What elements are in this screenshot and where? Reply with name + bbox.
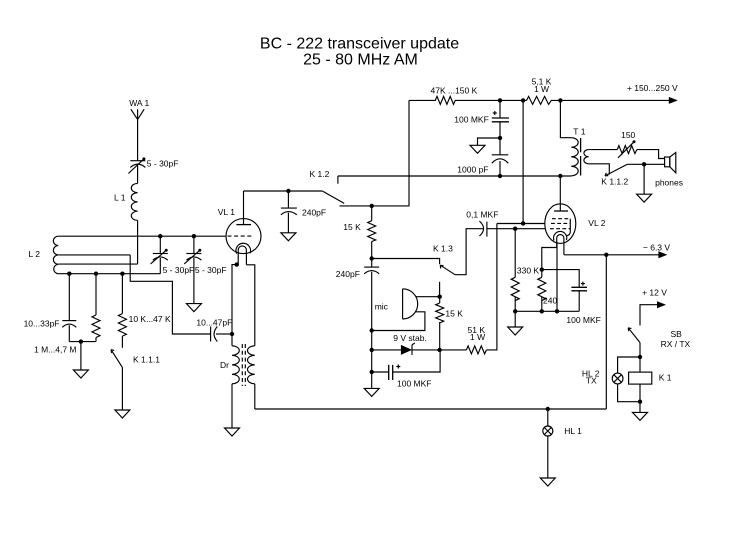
wire screen feed vertical [522, 100, 524, 223]
svg-text:330 K: 330 K [517, 266, 540, 276]
svg-text:K 1.1.2: K 1.1.2 [601, 177, 628, 187]
svg-text:100 MKF: 100 MKF [397, 379, 432, 389]
svg-text:240pF: 240pF [302, 207, 326, 217]
switch K1.1.1 arm [111, 350, 122, 368]
svg-text:K 1: K 1 [659, 373, 672, 383]
wire phones ground [643, 164, 645, 194]
ground (Dr) [225, 428, 240, 436]
choke Dr right winding [248, 346, 255, 384]
wire diode to node [412, 349, 466, 351]
node 240 top [540, 267, 544, 271]
node 240pF anode cap [286, 189, 290, 193]
node gnd link [79, 339, 83, 343]
wire top rail to 5.1K [500, 99, 527, 101]
node tap3 L2 [120, 272, 124, 276]
node diode left [370, 348, 374, 352]
wire Dr right to heater rail [254, 384, 256, 409]
resistor 1M...4.7M [92, 315, 100, 338]
svg-text:47K ...150 K: 47K ...150 K [431, 85, 478, 95]
transformer T1 primary [571, 138, 578, 176]
node mic / 15K [438, 295, 442, 299]
wire switch to ground [121, 367, 123, 410]
capacitor 0.1 MKF [479, 221, 487, 237]
svg-text:15 K: 15 K [343, 222, 361, 232]
svg-text:− 6.3 V: − 6.3 V [643, 242, 671, 252]
resistor 51K 1W [466, 346, 486, 354]
svg-text:1 W: 1 W [534, 84, 549, 94]
inductor L1 [131, 183, 137, 220]
svg-text:K 1.3: K 1.3 [433, 244, 453, 254]
wire tap1 down [68, 274, 70, 321]
svg-text:25 - 80 MHz AM: 25 - 80 MHz AM [303, 52, 418, 69]
ground (10...33pF / 1M) [73, 370, 88, 378]
node var cap 1 top [158, 234, 162, 238]
switch K1.1.2 arm [605, 164, 627, 176]
wire VL1 filament left step [232, 265, 238, 334]
wire diode line left [372, 349, 401, 351]
ground (C3) [186, 304, 201, 312]
node rail 330K [513, 309, 517, 313]
capacitor 100 MKF (cathode) [571, 282, 587, 291]
svg-text:T 1: T 1 [573, 127, 585, 137]
arrowhead +150V [669, 97, 678, 104]
inductor L2 [53, 236, 226, 274]
wire cathode rail [515, 310, 579, 312]
resistor 15K (mic) [436, 297, 444, 350]
wire T1 top lead [560, 100, 571, 137]
wire 100MKF (bias) right [393, 350, 440, 372]
wire 1000pF to line [499, 161, 501, 176]
node filament left [235, 262, 239, 266]
switch K1.2 arm [322, 191, 344, 203]
ground (K1.1.1) [115, 410, 130, 418]
node 100MKF top [498, 98, 502, 102]
wire 240pF bottom column [371, 272, 373, 389]
node HL1 [546, 407, 550, 411]
node var cap 2 top [192, 234, 196, 238]
switch SB arm [628, 328, 640, 343]
wire 100MKF top lead [499, 100, 501, 118]
transformer T1 secondary [584, 150, 589, 164]
ground (HL1) [540, 478, 555, 486]
microphone mic [403, 289, 418, 319]
wire 100MKF to node [499, 122, 501, 155]
svg-text:240pF: 240pF [336, 269, 360, 279]
wire 100MKF (bias) left [372, 371, 389, 373]
variable capacitor C1 5-30pF (antenna) [128, 157, 145, 173]
potentiometer 150 [617, 140, 637, 158]
wire anode cap top [287, 191, 289, 208]
arrowhead -6.3V [658, 251, 667, 258]
node diode right / 15K bottom [437, 348, 441, 352]
wire anode cap to ground [287, 213, 289, 233]
wire VL2 filament right / -6.3V line [564, 254, 659, 256]
wire HL2 branch top [618, 357, 640, 373]
node ground branch [498, 136, 502, 140]
wire antenna to trimmer [137, 120, 139, 161]
wire 0.1MKF to VL2 grid [487, 228, 545, 230]
wire K1.1.2 to phones [627, 163, 664, 165]
svg-text:VL 1: VL 1 [218, 207, 235, 217]
wire SB to relay [639, 343, 641, 373]
node screen feed top [521, 98, 525, 102]
wire rail to ground [514, 311, 516, 327]
speaker phones [665, 153, 676, 173]
svg-text:+ 150...250 V: + 150...250 V [627, 83, 678, 93]
svg-text:BC - 222 transceiver update: BC - 222 transceiver update [260, 36, 459, 53]
svg-text:5 - 30pF: 5 - 30pF [195, 265, 227, 275]
wire K1.2 line to T1 primary bottom [338, 175, 571, 177]
wire HL2 branch bottom [618, 384, 640, 402]
node screen line [521, 221, 525, 225]
lamp HL2 [612, 373, 623, 384]
ground (240pF anode) [281, 233, 296, 241]
svg-text:15 K: 15 K [445, 309, 463, 319]
wire 240 node to 100MKF [542, 270, 579, 288]
antenna WA1 [131, 109, 144, 119]
wire Dr left to ground [231, 384, 233, 428]
node rail 240 [540, 309, 544, 313]
capacitor 240pF (anode) [281, 208, 297, 215]
wire VL2 filament left step [542, 248, 557, 270]
choke Dr core [242, 344, 245, 386]
wire heater rail [255, 408, 607, 410]
resistor 47K...150K [409, 96, 500, 104]
wire resistor bottom [95, 338, 97, 342]
wire cap to gnd link [68, 325, 70, 341]
wire trimmer to L1 [137, 165, 139, 183]
svg-text:240: 240 [543, 296, 557, 306]
wire mic upper lead [416, 296, 440, 298]
wire K1.3 feed line [372, 259, 440, 265]
wire tap3 down [121, 274, 123, 314]
wire tap2 down [95, 274, 97, 315]
variable capacitor C3 5-30pF [184, 249, 201, 264]
node HL2 top [638, 355, 642, 359]
wire mic lower lead [372, 312, 425, 331]
wire 100MKF bottom [578, 291, 580, 312]
node 330K top [513, 227, 517, 231]
svg-text:K 1.1.1: K 1.1.1 [133, 355, 160, 365]
resistor 330K [511, 229, 519, 312]
svg-text:1 M...4,7 M: 1 M...4,7 M [34, 344, 77, 354]
svg-text:150: 150 [621, 130, 635, 140]
wire ground branch [478, 138, 501, 145]
svg-text:5 - 30pF: 5 - 30pF [147, 159, 179, 169]
wire K1.3 lower contact stub [439, 282, 441, 297]
switch K1.2 upper contact stub [337, 176, 339, 184]
capacitor 240pF (K1.3 feed) [364, 259, 379, 274]
wire var cap 2 to ground [193, 258, 195, 304]
node 100MKF left [370, 370, 374, 374]
svg-text:5 - 30pF: 5 - 30pF [163, 265, 195, 275]
wire cathode line to Dr [231, 334, 233, 346]
node tap1 L2 [67, 272, 71, 276]
wire T1 secondary bottom stub [589, 164, 610, 175]
capacitor 10...47pF [211, 327, 218, 342]
node 15K top [370, 204, 374, 208]
svg-text:10...47pF: 10...47pF [196, 317, 232, 327]
wire K1.2 lower contact to 47K vertical [339, 100, 409, 205]
svg-text:10...33pF: 10...33pF [24, 319, 60, 329]
resistor 240 [538, 270, 546, 312]
wire VL2 cathode tail [556, 242, 558, 311]
svg-text:9 V stab.: 9 V stab. [393, 333, 427, 343]
wire -6.3V branch down [605, 255, 607, 409]
svg-text:TX: TX [586, 376, 597, 386]
svg-text:0,1 MKF: 0,1 MKF [466, 209, 498, 219]
svg-text:1000 pF: 1000 pF [457, 165, 488, 175]
wire to ground [80, 342, 82, 370]
wire var cap 2 top [193, 236, 195, 253]
variable capacitor C2 5-30pF [151, 249, 168, 264]
wire VL1 filament right step [246, 265, 254, 346]
wire relay bottom [639, 384, 641, 412]
svg-text:K 1.2: K 1.2 [310, 169, 330, 179]
tube VL2 [545, 176, 576, 255]
svg-text:mic: mic [375, 301, 389, 311]
node tap2 L2 [94, 272, 98, 276]
wire resistor to switch stub [121, 336, 123, 348]
wire HL1 bottom [547, 436, 549, 478]
svg-text:1 W: 1 W [470, 332, 485, 342]
resistor 5.1K 1W [527, 96, 561, 104]
wire bottom link [69, 341, 96, 343]
wire +150V line [560, 99, 669, 101]
node T1 top feed [558, 98, 562, 102]
wire HL1 top [547, 409, 549, 426]
switch K1.3 arm [440, 265, 455, 275]
relay K1 [629, 372, 652, 384]
wire 10...47pF to cathode line [216, 333, 232, 335]
ground (phones) [637, 194, 652, 202]
wire T1 secondary top to pot [589, 149, 618, 151]
node K1.3 feed [370, 256, 374, 260]
svg-text:WA 1: WA 1 [129, 98, 149, 108]
wire screen line to VL2 [497, 223, 545, 225]
wire L2 turn2 to 10...47pF [130, 255, 210, 334]
wire L1 to L2 tap (turn 3) [137, 220, 139, 264]
capacitor 1000 pF [492, 155, 509, 163]
node 1000pF bottom [498, 174, 502, 178]
node mic return [370, 328, 374, 332]
node -6.3V branch [604, 253, 608, 257]
ground (K1) [633, 412, 648, 420]
diode 9V stab (zener) [401, 343, 415, 355]
svg-text:100 MKF: 100 MKF [566, 315, 601, 325]
svg-text:HL 1: HL 1 [564, 426, 582, 436]
resistor 15K (K1.2) [368, 206, 376, 259]
node rail cathode [555, 309, 559, 313]
svg-text:Dr: Dr [220, 360, 229, 370]
arrowhead +12V [657, 301, 666, 308]
capacitor 10...33pF [62, 321, 76, 328]
lamp HL1 [543, 426, 553, 436]
svg-text:phones: phones [655, 178, 683, 188]
wire pot to phones [637, 150, 665, 159]
choke Dr left winding [232, 346, 239, 384]
svg-text:+ 12 V: + 12 V [642, 288, 667, 298]
node relay bottom [638, 400, 642, 404]
svg-text:L 1: L 1 [114, 193, 126, 203]
wire 51K to screen line [487, 224, 497, 350]
svg-text:VL 2: VL 2 [588, 218, 605, 228]
svg-text:10 K...47 K: 10 K...47 K [129, 314, 171, 324]
capacitor 100 MKF (screen) [492, 111, 509, 122]
node 10...47pF junction [230, 332, 234, 336]
node phones ground [642, 162, 646, 166]
transformer T1 core [580, 138, 582, 176]
wire VL1 anode to K1.2 [244, 190, 323, 192]
capacitor 100 MKF (bias) [389, 365, 401, 381]
svg-text:SB: SB [671, 329, 683, 339]
resistor 10K...47K [118, 314, 126, 337]
wire var cap 1 bottom [159, 258, 161, 274]
svg-text:RX / TX: RX / TX [661, 339, 691, 349]
wire +12V arrow line [640, 305, 658, 326]
ground (VL2 cathode) [508, 327, 523, 335]
svg-text:100 MKF: 100 MKF [454, 115, 489, 125]
tube VL1 [226, 191, 261, 265]
node VL2 anode junction [558, 174, 562, 178]
svg-text:L 2: L 2 [28, 249, 40, 259]
ground (100MKF) [470, 145, 485, 153]
wire K1.3 common to 0.1MKF [455, 229, 483, 275]
ground (mic column) [364, 388, 379, 396]
wire var cap 1 top [159, 236, 161, 253]
